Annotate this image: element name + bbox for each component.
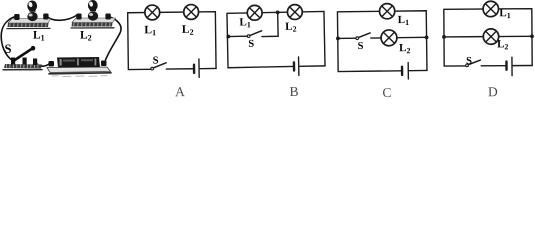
wire between lamp L1 right post and lamp L2 left post: [46, 15, 78, 21]
wire battery to corner (B): [300, 65, 325, 67]
wire A rect: [128, 12, 216, 70]
wire from lamp L1 left post down left side to switch: [1, 17, 15, 61]
svg-text:C: C: [382, 85, 391, 100]
node dot right junction (D): [530, 34, 534, 38]
switch posts: [11, 58, 15, 65]
middle branch wires (D): [444, 36, 483, 38]
lamp holder 1 base: [7, 19, 51, 29]
svg-text:S: S: [5, 42, 12, 56]
wire battery to corner (C): [409, 69, 427, 71]
battery (D): [505, 62, 507, 70]
wire battery left terminal to switch: [36, 63, 50, 67]
lamp L1 (B): [247, 5, 262, 20]
lamp 1 bulb: [30, 9, 36, 12]
lamp 1 socket: [27, 12, 37, 21]
battery (B): [293, 62, 296, 70]
svg-text:S: S: [466, 56, 472, 67]
battery terminals: [49, 61, 55, 67]
switch S (B): [247, 35, 250, 38]
knife switch base: [3, 64, 42, 70]
svg-text:S: S: [153, 55, 159, 66]
wire battery to corner (D): [513, 64, 532, 66]
node dot left junction (D): [442, 35, 446, 39]
svg-text:B: B: [289, 84, 298, 99]
svg-text:S: S: [357, 41, 363, 52]
wire after switch to battery (D): [481, 65, 505, 67]
switch S (A): [151, 67, 154, 70]
wire D rect: [444, 9, 532, 66]
wire B rect: [227, 11, 325, 67]
switch S (D): [466, 64, 469, 67]
wire from lamp L2 right post down to battery right terminal: [106, 17, 122, 61]
wire C rect: [337, 11, 427, 72]
wire after switch to battery: [166, 68, 192, 70]
middle branch wires (C): [338, 37, 356, 39]
svg-text:S: S: [248, 39, 254, 50]
parallel switch branch (B): [261, 12, 278, 36]
lamp 2 bulb: [90, 9, 96, 12]
lamp holder 2 base: [71, 18, 116, 28]
lamp L2 (B): [287, 4, 302, 19]
lamp L2 (A): [184, 4, 199, 19]
battery pack: [47, 57, 111, 77]
lamp 1 binding posts: [14, 14, 19, 20]
svg-text:D: D: [488, 84, 498, 99]
lamp L1 (C): [379, 4, 394, 19]
lamp 2 socket: [88, 11, 98, 20]
node dot left junction (C): [336, 37, 340, 41]
lamp L1 (A): [145, 5, 160, 20]
battery (C): [401, 67, 404, 75]
lamp 2 binding posts: [76, 14, 81, 20]
node dot top junction (B): [276, 10, 280, 14]
svg-text:A: A: [175, 84, 185, 99]
switch blade: [13, 49, 32, 61]
lamp L2 (D): [483, 29, 499, 45]
lamp L1 (D): [483, 1, 499, 17]
battery (A): [193, 65, 196, 73]
wire battery to corner: [200, 67, 216, 69]
lamp L2 (C): [381, 30, 397, 46]
switch S (C): [356, 37, 359, 40]
node dot left junction (B): [226, 35, 230, 39]
node dot right junction (C): [425, 35, 429, 39]
